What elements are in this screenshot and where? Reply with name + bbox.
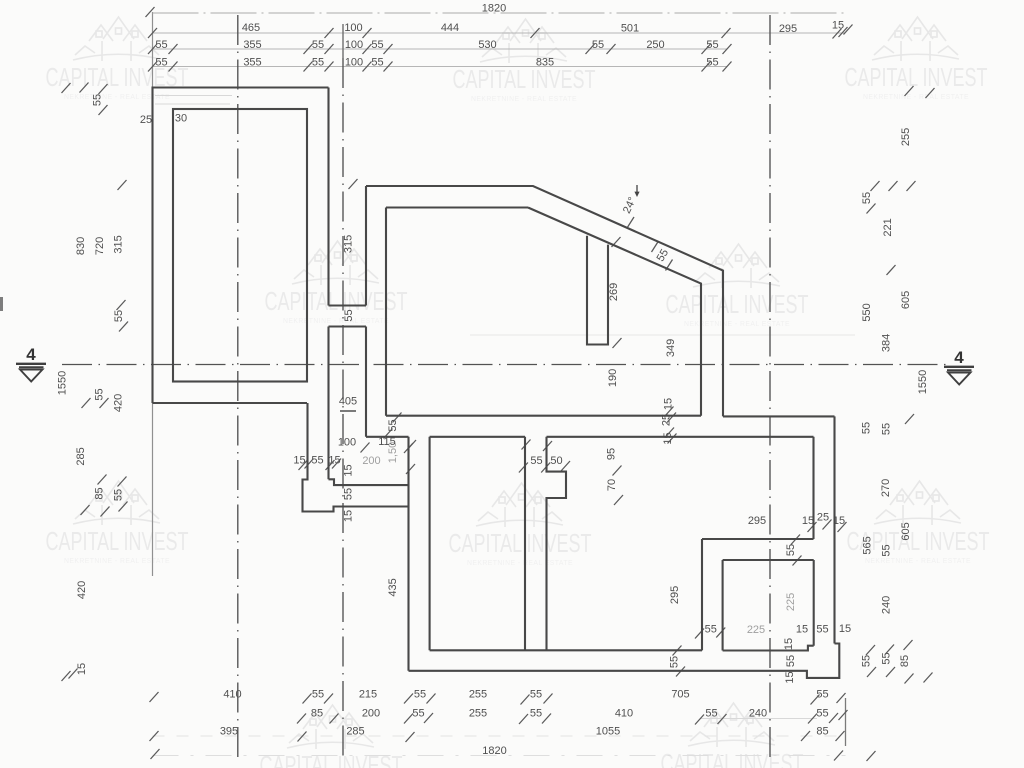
bottom dimension line row C: [153, 735, 846, 737]
interior wall y=415.7: [386, 415, 701, 417]
svg-text:720: 720: [94, 237, 106, 255]
corridor cross wall lower edge: [329, 325, 367, 327]
svg-text:55: 55: [706, 57, 718, 69]
svg-text:255: 255: [469, 689, 487, 701]
svg-text:100: 100: [345, 57, 363, 69]
svg-text:55: 55: [113, 489, 125, 501]
middle building inner left wall: [385, 208, 387, 416]
roof slope arrow: [636, 185, 638, 195]
svg-text:55: 55: [705, 624, 717, 636]
extension line x=343 top: [342, 24, 344, 58]
svg-text:85: 85: [899, 655, 911, 667]
watermark CAPITAL INVEST at 524,79: [453, 19, 596, 103]
svg-text:55: 55: [706, 39, 718, 51]
watermark CAPITAL INVEST at 916,77: [845, 17, 988, 101]
middle building outer top wall and roof slant: [366, 186, 723, 416]
svg-text:55: 55: [155, 39, 167, 51]
svg-text:30: 30: [175, 113, 187, 125]
watermark CAPITAL INVEST at 331,765: [260, 705, 403, 768]
middle building inner top wall: [386, 206, 528, 208]
svg-text:315: 315: [113, 235, 125, 253]
watermark CAPITAL INVEST at 732,763: [661, 703, 804, 768]
overall 1820 dimension line top: [153, 12, 846, 14]
svg-text:15: 15: [802, 515, 814, 527]
inner bottom wall y=650.3: [430, 649, 702, 651]
svg-text:25: 25: [817, 512, 829, 524]
svg-text:15: 15: [342, 464, 354, 476]
svg-text:240: 240: [881, 596, 893, 614]
svg-text:349: 349: [665, 339, 677, 357]
svg-text:55: 55: [530, 455, 542, 467]
interior wall band left edge x=525: [524, 437, 526, 651]
svg-text:4: 4: [26, 345, 36, 364]
svg-text:55: 55: [785, 544, 797, 556]
interior wall y=539: [702, 538, 814, 540]
svg-text:190: 190: [607, 369, 619, 387]
svg-text:100: 100: [345, 39, 363, 51]
svg-text:15: 15: [796, 624, 808, 636]
junction zigzag wall outer: [329, 479, 409, 485]
watermark CAPITAL INVEST at 117,77: [46, 17, 189, 101]
svg-text:420: 420: [76, 581, 88, 599]
svg-text:55: 55: [312, 57, 324, 69]
svg-text:55: 55: [371, 39, 383, 51]
svg-text:50: 50: [550, 455, 562, 467]
dimension line top row 1: [153, 32, 846, 34]
svg-text:1820: 1820: [482, 3, 506, 15]
svg-text:355: 355: [243, 57, 261, 69]
axis line C (x=770): [769, 15, 771, 757]
svg-text:565: 565: [862, 536, 874, 554]
svg-text:95: 95: [606, 448, 618, 460]
corridor right wall upper part: [365, 186, 367, 306]
corridor left wall lower part: [327, 327, 329, 480]
svg-text:15: 15: [783, 638, 795, 650]
svg-text:285: 285: [346, 726, 364, 738]
interior wall x=702: [701, 539, 703, 650]
svg-text:1550: 1550: [57, 371, 69, 395]
axis line B (x=343): [342, 58, 344, 757]
svg-text:410: 410: [223, 689, 241, 701]
svg-text:15: 15: [342, 510, 354, 522]
right outer wall x=834.5: [833, 416, 835, 643]
svg-text:55: 55: [94, 388, 106, 400]
svg-text:55: 55: [530, 689, 542, 701]
svg-text:15: 15: [784, 671, 796, 683]
svg-text:200: 200: [362, 708, 380, 720]
outer bottom wall with right step: [409, 644, 840, 678]
svg-text:55: 55: [113, 310, 125, 322]
left building outer bottom wall: [153, 402, 308, 404]
svg-text:465: 465: [242, 22, 260, 34]
svg-text:240: 240: [749, 708, 767, 720]
svg-text:1820: 1820: [482, 745, 506, 757]
svg-text:85: 85: [94, 487, 106, 499]
corridor right wall lower part: [365, 327, 367, 437]
svg-text:221: 221: [882, 218, 894, 236]
wall x=429.6: [429, 437, 431, 651]
junction zigzag wall inner: [303, 403, 410, 512]
svg-text:85: 85: [816, 726, 828, 738]
watermark CAPITAL INVEST at 336,301: [265, 241, 408, 325]
extension line x=845.5 bottom: [845, 698, 847, 746]
svg-text:250: 250: [646, 39, 664, 51]
middle building inner roof slant: [528, 208, 701, 416]
section marker 4 right: [944, 348, 974, 385]
scan artifact left edge: [0, 297, 3, 311]
svg-text:55: 55: [312, 689, 324, 701]
wall x=408.5: [407, 437, 409, 671]
room 225 bottom wall with step: [723, 646, 814, 651]
svg-text:4: 4: [954, 348, 964, 367]
svg-text:255: 255: [469, 708, 487, 720]
svg-text:55: 55: [816, 689, 828, 701]
svg-text:55: 55: [816, 708, 828, 720]
svg-text:835: 835: [536, 57, 554, 69]
watermark CAPITAL INVEST at 520,543: [449, 483, 592, 567]
left building inner room rectangle: [173, 109, 307, 382]
svg-text:550: 550: [861, 303, 873, 321]
svg-text:25: 25: [140, 114, 152, 126]
svg-text:269: 269: [608, 283, 620, 301]
svg-text:55: 55: [414, 689, 426, 701]
dimension base line left x=152.5: [152, 12, 154, 576]
corridor cross wall upper edge: [329, 304, 367, 306]
svg-text:200: 200: [362, 455, 380, 467]
svg-text:395: 395: [220, 726, 238, 738]
svg-text:55: 55: [311, 455, 323, 467]
room 225 left wall: [722, 560, 724, 651]
interior wall band right edge with pillar notch: [547, 437, 567, 651]
svg-text:55: 55: [530, 708, 542, 720]
svg-text:55: 55: [312, 39, 324, 51]
svg-text:55: 55: [881, 544, 893, 556]
dimension line top row 3: [153, 66, 728, 68]
svg-text:15: 15: [839, 623, 851, 635]
interior wall y=436.8 right span: [547, 436, 814, 438]
svg-text:605: 605: [900, 522, 912, 540]
svg-text:55: 55: [669, 656, 681, 668]
roof T-stub walls: [587, 236, 608, 345]
svg-text:1550: 1550: [917, 370, 929, 394]
svg-text:410: 410: [615, 708, 633, 720]
watermark CAPITAL INVEST at 737,304: [666, 244, 809, 328]
watermark CAPITAL INVEST at 117,541: [46, 481, 189, 565]
axis line 4-4 horizontal (y=364.5): [62, 364, 946, 366]
svg-text:55: 55: [155, 57, 167, 69]
svg-text:15: 15: [832, 20, 844, 32]
svg-text:255: 255: [900, 128, 912, 146]
svg-text:70: 70: [606, 479, 618, 491]
svg-text:55: 55: [861, 655, 873, 667]
interior wall y=436.8 junction span: [366, 436, 409, 438]
svg-text:295: 295: [779, 23, 797, 35]
interior wall y=416.4 right part: [723, 415, 835, 417]
svg-text:501: 501: [621, 23, 639, 35]
svg-text:100: 100: [338, 437, 356, 449]
svg-text:1055: 1055: [596, 726, 620, 738]
section marker 4 left: [16, 345, 46, 382]
svg-text:55: 55: [342, 488, 354, 500]
left building outer right wall: [327, 88, 329, 306]
svg-text:55: 55: [881, 652, 893, 664]
room 225 top wall y=560: [723, 559, 814, 561]
bottom 1820 dimension line: [153, 755, 846, 757]
svg-text:355: 355: [243, 39, 261, 51]
svg-text:100: 100: [344, 22, 362, 34]
svg-text:55: 55: [343, 309, 355, 321]
svg-text:225: 225: [785, 593, 797, 611]
svg-text:55: 55: [705, 708, 717, 720]
underline of 405: [340, 410, 356, 412]
svg-text:530: 530: [478, 39, 496, 51]
svg-text:55: 55: [816, 624, 828, 636]
svg-text:295: 295: [748, 515, 766, 527]
svg-text:315: 315: [343, 235, 355, 253]
svg-text:55: 55: [881, 423, 893, 435]
svg-text:55: 55: [92, 94, 104, 106]
bottom dimension line row B partial: [700, 718, 817, 720]
svg-text:225: 225: [747, 624, 765, 636]
inner wall x=813.5: [812, 437, 814, 539]
watermark CAPITAL INVEST at 918,541: [847, 481, 990, 565]
svg-text:830: 830: [75, 237, 87, 255]
faint line middle room: [470, 334, 855, 336]
svg-text:55: 55: [371, 57, 383, 69]
dimension line top row 2: [153, 48, 728, 50]
svg-text:435: 435: [387, 578, 399, 596]
faint scan lines left room: [155, 95, 232, 97]
svg-text:55: 55: [861, 192, 873, 204]
room 225 right wall: [813, 560, 815, 646]
svg-text:270: 270: [880, 479, 892, 497]
svg-text:55: 55: [412, 708, 424, 720]
svg-text:444: 444: [441, 22, 459, 34]
svg-text:285: 285: [75, 447, 87, 465]
svg-text:215: 215: [359, 689, 377, 701]
svg-text:384: 384: [881, 334, 893, 352]
svg-text:55: 55: [785, 655, 797, 667]
svg-text:420: 420: [113, 394, 125, 412]
svg-text:295: 295: [669, 586, 681, 604]
axis line A (x=237.8): [237, 15, 239, 757]
svg-text:405: 405: [339, 396, 357, 408]
svg-text:85: 85: [311, 708, 323, 720]
left building outer wall (left+top): [153, 88, 329, 404]
svg-text:605: 605: [900, 291, 912, 309]
svg-text:705: 705: [671, 689, 689, 701]
interior wall y=436.8 left span: [430, 436, 525, 438]
svg-text:55: 55: [861, 422, 873, 434]
